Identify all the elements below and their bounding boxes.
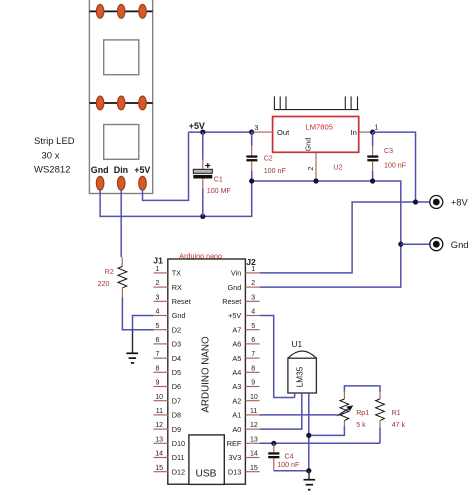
U2 pin 2 lead [315, 152, 317, 181]
LM35 middle leg (Vout) to A0 [260, 393, 302, 429]
svg-text:6: 6 [251, 337, 255, 344]
svg-text:220: 220 [98, 280, 110, 288]
svg-text:10: 10 [250, 394, 258, 401]
svg-text:9: 9 [251, 380, 255, 387]
USB box [189, 435, 224, 485]
svg-text:USB: USB [196, 469, 217, 480]
svg-text:REF: REF [227, 439, 242, 448]
svg-text:C1: C1 [214, 176, 223, 184]
LED strip cut line row 2 [89, 102, 152, 104]
svg-text:A4: A4 [232, 368, 241, 377]
wire A1 pin to Rp1 wiper [260, 414, 338, 416]
svg-text:Gnd: Gnd [228, 283, 242, 292]
svg-text:D7: D7 [172, 396, 181, 405]
U2 pin 3 lead [252, 131, 273, 133]
svg-text:+8V: +8V [451, 197, 469, 208]
svg-text:Strip LED: Strip LED [34, 136, 75, 147]
wire +5V rail [189, 131, 252, 133]
J1 pin 9 lead [154, 386, 169, 388]
svg-text:5: 5 [156, 323, 160, 330]
solder pad Gnd [96, 176, 104, 190]
svg-text:11: 11 [250, 408, 257, 415]
svg-text:+5V: +5V [228, 311, 241, 320]
J1 pin 15 lead [154, 471, 169, 473]
J2 pin 6 lead [245, 343, 259, 345]
svg-text:J1: J1 [153, 256, 163, 266]
J1 pin 5 lead [154, 329, 169, 331]
svg-text:U2: U2 [333, 164, 342, 172]
terminal +8V [430, 196, 443, 209]
svg-text:100 MF: 100 MF [207, 187, 232, 195]
svg-text:15: 15 [155, 465, 163, 472]
svg-text:A3: A3 [232, 382, 241, 391]
svg-text:D8: D8 [172, 411, 181, 420]
J1 pin 2 lead [154, 286, 169, 288]
J2 pin 10 lead [245, 400, 259, 402]
LED strip body outline [89, 0, 152, 194]
J1 pin 13 lead [154, 442, 169, 444]
wire C4 bottom to ground node [274, 470, 309, 472]
wire strip Din pad down to R2 [120, 189, 122, 257]
J2 pin 3 lead [245, 300, 259, 302]
J2 pin 9 lead [245, 386, 259, 388]
junction C4 top on REF wire [271, 441, 276, 446]
wire strip Gnd pad to ground rail [100, 181, 252, 216]
svg-text:15: 15 [250, 465, 258, 472]
capacitor C2 [246, 132, 257, 181]
solder pad row2 a [96, 96, 104, 110]
LED chip square 2 [104, 125, 139, 160]
svg-text:D2: D2 [172, 325, 181, 334]
svg-text:D10: D10 [172, 439, 185, 448]
svg-text:LM35: LM35 [296, 366, 305, 387]
svg-text:D3: D3 [172, 340, 181, 349]
LM35 right leg (GND) [308, 393, 310, 471]
wire REF pin rail [260, 442, 380, 444]
J2 pin 8 lead [245, 371, 259, 373]
svg-text:3: 3 [251, 294, 255, 301]
capacitor C1 [193, 132, 212, 216]
wire to Gnd terminal [401, 243, 430, 245]
svg-text:1: 1 [251, 266, 255, 273]
svg-text:A1: A1 [232, 411, 241, 420]
svg-text:A7: A7 [232, 325, 241, 334]
svg-text:6: 6 [156, 337, 160, 344]
svg-text:Reset: Reset [222, 297, 241, 306]
wire +8V to Vin [260, 202, 416, 273]
svg-text:Gnd: Gnd [451, 239, 469, 250]
svg-text:RX: RX [172, 283, 182, 292]
svg-text:A5: A5 [232, 354, 241, 363]
junction In pin / C3 [370, 130, 375, 135]
svg-text:5: 5 [251, 323, 255, 330]
J2 pin 13 lead [245, 442, 259, 444]
wire In pin to +8V column [373, 132, 416, 202]
junction C1 bottom on gnd wire [200, 214, 205, 219]
J1 pin 12 lead [154, 428, 169, 430]
resistor R2 [118, 257, 127, 298]
svg-text:8: 8 [251, 365, 255, 372]
svg-text:2: 2 [156, 280, 160, 287]
svg-text:3V3: 3V3 [228, 453, 241, 462]
J2 pin 15 lead [245, 471, 259, 473]
svg-text:12: 12 [155, 422, 163, 429]
svg-text:LM7805: LM7805 [306, 122, 333, 131]
svg-text:U1: U1 [292, 339, 303, 349]
wire Rp1 top to R1 top [344, 386, 380, 392]
svg-text:10: 10 [155, 394, 163, 401]
svg-text:7: 7 [156, 351, 160, 358]
solder pad +5V [139, 176, 147, 190]
svg-text:4: 4 [251, 309, 255, 316]
LM35 left leg (+Vs) [294, 393, 296, 398]
svg-text:11: 11 [156, 408, 163, 415]
junction Gnd terminal tap [398, 242, 403, 247]
svg-text:C3: C3 [384, 147, 393, 155]
Arduino box [168, 259, 246, 484]
wire Rp1 bottom to LM35 gnd leg [309, 426, 345, 435]
LED chip square 1 [104, 40, 139, 75]
svg-text:14: 14 [250, 451, 258, 458]
J1 pin 6 lead [154, 343, 169, 345]
J2 pin 11 lead [245, 414, 259, 416]
svg-text:D11: D11 [172, 453, 185, 462]
solder pad row2 b [117, 96, 125, 110]
wire strip +5V pad to +5V node [143, 132, 189, 200]
junction LM35 gnd leg / Rp1 bottom [306, 433, 311, 438]
J2 pin 12 lead [245, 428, 259, 430]
junction C2 bottom [249, 178, 254, 183]
svg-text:13: 13 [155, 436, 163, 443]
J1 pin 3 lead [154, 300, 169, 302]
svg-text:Rp1: Rp1 [356, 409, 369, 417]
svg-text:D4: D4 [172, 354, 181, 363]
ground symbol near J1 [126, 331, 138, 363]
svg-text:WS2812: WS2812 [34, 165, 70, 176]
J1 pin 1 lead [154, 272, 168, 274]
svg-text:R2: R2 [105, 268, 114, 276]
svg-text:Reset: Reset [172, 297, 191, 306]
Rp1 wiper arrow [337, 405, 353, 415]
potentiometer Rp1 [340, 391, 349, 426]
svg-text:Out: Out [277, 128, 290, 137]
J1 pin 10 lead [154, 400, 169, 402]
svg-text:Vin: Vin [231, 269, 241, 278]
LED strip cut line row 1 [89, 10, 152, 12]
svg-text:Gnd: Gnd [91, 165, 109, 175]
junction +5V / C1 top [200, 130, 205, 135]
temperature sensor U1 LM35 [288, 351, 317, 393]
svg-text:9: 9 [156, 380, 160, 387]
U2 pin 1 lead [359, 131, 373, 133]
svg-text:100 nF: 100 nF [277, 461, 300, 469]
J2 pin 7 lead [245, 357, 259, 359]
svg-text:Gnd: Gnd [303, 138, 312, 152]
J1 pin 11 lead [154, 414, 169, 416]
ground symbol near LM35 [304, 471, 316, 490]
svg-text:+5V: +5V [134, 165, 150, 175]
capacitor C4 [268, 443, 279, 470]
svg-text:2: 2 [251, 280, 255, 287]
svg-text:Gnd: Gnd [172, 311, 186, 320]
svg-text:A2: A2 [232, 396, 241, 405]
svg-text:D13: D13 [228, 467, 241, 476]
junction C3 bottom [370, 178, 375, 183]
svg-text:1: 1 [375, 125, 379, 132]
junction ground node [306, 468, 311, 473]
voltage regulator U2 LM7805 box [273, 117, 359, 153]
wire ground rail under U2 [252, 181, 401, 287]
J1 pin 8 lead [154, 371, 169, 373]
junction +5V / regulator out [249, 130, 254, 135]
svg-text:C4: C4 [285, 453, 294, 461]
svg-text:ARDUINO NANO: ARDUINO NANO [201, 336, 212, 413]
svg-text:12: 12 [250, 422, 258, 429]
wire +5V pin to LM35 Vcc [260, 316, 295, 398]
svg-text:TX: TX [172, 269, 181, 278]
J2 pin 4 lead [245, 315, 259, 317]
wire R2 to D2 pin [122, 298, 153, 330]
svg-text:8: 8 [156, 365, 160, 372]
svg-text:C2: C2 [264, 154, 273, 162]
svg-text:3: 3 [156, 294, 160, 301]
svg-text:A0: A0 [232, 425, 241, 434]
svg-text:In: In [350, 128, 356, 137]
J1 pin 7 lead [154, 357, 169, 359]
svg-text:3: 3 [255, 125, 259, 132]
svg-text:1: 1 [156, 266, 160, 273]
solder pad Din [117, 176, 125, 190]
wire +8V terminal stub [416, 201, 430, 203]
svg-text:D6: D6 [172, 382, 181, 391]
svg-text:47 k: 47 k [392, 421, 406, 429]
capacitor C3 [367, 132, 378, 181]
J1 pin 14 lead [154, 457, 169, 459]
terminal Gnd [430, 238, 443, 251]
J2 pin 1 lead [245, 272, 259, 274]
svg-text:D5: D5 [172, 368, 181, 377]
svg-text:2: 2 [308, 166, 315, 170]
junction +8V [413, 199, 418, 204]
J2 pin 2 lead [245, 286, 259, 288]
solder pad row1 b [117, 4, 125, 18]
svg-text:14: 14 [155, 451, 163, 458]
svg-text:D9: D9 [172, 425, 181, 434]
svg-text:A6: A6 [232, 340, 241, 349]
svg-text:13: 13 [250, 436, 258, 443]
wire R1 bottom to REF wire [379, 428, 381, 444]
svg-text:100 nF: 100 nF [384, 161, 407, 169]
svg-text:Din: Din [114, 165, 128, 175]
junction U2 pin2 on rail [313, 178, 318, 183]
solder pad row1 c [139, 4, 147, 18]
J2 pin 5 lead [245, 329, 259, 331]
svg-text:5 k: 5 k [356, 421, 366, 429]
wire Gnd pin to ground [133, 316, 154, 332]
svg-text:D12: D12 [172, 467, 185, 476]
heatsink above U2 [274, 96, 359, 109]
svg-text:4: 4 [156, 309, 160, 316]
solder pad row1 a [96, 4, 104, 18]
svg-text:7: 7 [251, 351, 255, 358]
solder pad row2 c [139, 96, 147, 110]
svg-text:R1: R1 [392, 409, 401, 417]
J1 pin 4 lead [154, 315, 169, 317]
J2 pin 14 lead [245, 457, 259, 459]
svg-text:100 nF: 100 nF [264, 167, 287, 175]
resistor R1 [376, 391, 385, 428]
svg-text:30 x: 30 x [42, 150, 60, 161]
